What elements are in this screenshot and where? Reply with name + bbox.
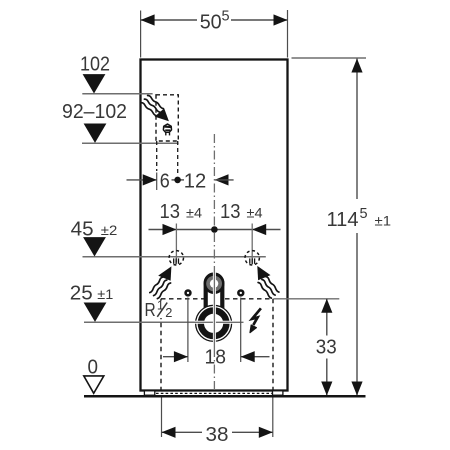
- svg-text:R: R: [145, 299, 156, 320]
- rough-in dashed box: [161, 299, 273, 390]
- dimension 33 vertical: [321, 299, 332, 396]
- svg-text:33: 33: [316, 336, 337, 359]
- fixing screw left: [184, 289, 191, 296]
- svg-text:5: 5: [222, 9, 230, 25]
- svg-text:±2: ±2: [101, 222, 118, 238]
- dashed drop line water pipe axis: [177, 141, 179, 176]
- svg-text:50: 50: [200, 10, 222, 33]
- dimension 13 +-4 / 13 +-4: [149, 224, 281, 235]
- module bottom feet: left foot: [144, 391, 154, 395]
- fixing screw right: [237, 289, 244, 296]
- svg-text:18: 18: [205, 346, 227, 369]
- dimension 6/12: [127, 174, 234, 185]
- dashed line between feet: [156, 392, 272, 394]
- level line 45: [83, 256, 266, 258]
- dimension 38: [162, 427, 273, 438]
- label R 1/2: [143, 298, 174, 320]
- capsule gray ring: [204, 273, 225, 294]
- top dashed box (water supply zone): [156, 95, 178, 141]
- label 45 +-2: [71, 218, 118, 241]
- triangle marker 25: [84, 303, 107, 322]
- extension line screw right down: [240, 298, 242, 363]
- dashed circle right water connection: [245, 251, 259, 265]
- extension line 38 right: [272, 398, 274, 438]
- svg-text:±4: ±4: [186, 205, 202, 221]
- level line 92-102: [82, 142, 179, 144]
- svg-text:114: 114: [327, 208, 359, 231]
- flush valve capsule: [206, 275, 223, 316]
- extension line to right water connection: [251, 224, 253, 263]
- dimension 114.5 vertical: [351, 59, 362, 396]
- label 13 +-4 right: [220, 200, 263, 223]
- floor line: [84, 395, 366, 398]
- extension line 33 top: [274, 298, 340, 300]
- svg-text:±1: ±1: [375, 213, 392, 229]
- svg-text:13: 13: [160, 200, 181, 223]
- svg-text:92–102: 92–102: [62, 100, 127, 123]
- svg-text:5: 5: [360, 206, 368, 222]
- label 25 +-1: [70, 282, 114, 305]
- label 13 +-4 left: [160, 200, 203, 223]
- svg-text:±1: ±1: [97, 286, 113, 302]
- module outline: [141, 60, 288, 391]
- triangle marker 45: [83, 237, 106, 256]
- open triangle marker 0: [84, 376, 104, 393]
- label 114(5) +-1: [327, 206, 392, 231]
- svg-text:1: 1: [157, 298, 164, 313]
- svg-text:0: 0: [88, 356, 99, 379]
- extension line to left water connection: [175, 224, 177, 263]
- dashed drop line from box left edge: [156, 141, 158, 171]
- center line (vertical dash-dot): [213, 134, 215, 390]
- svg-text:25: 25: [70, 282, 93, 305]
- label 50(5): [200, 9, 230, 34]
- water symbol top (arrow down-right): [140, 93, 169, 121]
- svg-text:6: 6: [160, 170, 170, 193]
- triangle marker 102: [83, 74, 106, 93]
- lightning bolt: [250, 308, 261, 332]
- level line 102: [82, 93, 152, 95]
- water symbol left (arrow up-right): [150, 266, 172, 298]
- level line 25: [84, 321, 244, 323]
- svg-text:38: 38: [206, 423, 229, 446]
- svg-text:2: 2: [165, 305, 172, 320]
- svg-text:45: 45: [71, 218, 94, 241]
- plug icon: [163, 124, 171, 135]
- dashed circle left water connection: [169, 251, 183, 265]
- right foot: [273, 391, 283, 395]
- flush pipe circle: [195, 267, 243, 348]
- wire: extension line right of 50.5 dim: [287, 10, 289, 58]
- extension line 114.5 top: [292, 57, 367, 59]
- triangle marker 92-102: [84, 123, 107, 142]
- svg-text:13: 13: [220, 200, 241, 223]
- water symbol right (arrow up-left): [257, 266, 279, 298]
- extension stub at x=156.7: [156, 173, 158, 191]
- crosshair white casing horizontal: [195, 321, 244, 324]
- svg-text:12: 12: [184, 170, 207, 193]
- extension line 38 left: [161, 398, 163, 438]
- extension line screw left down: [187, 298, 189, 363]
- crosshair white casing vertical: [213, 268, 216, 348]
- dimension 50.5 top line: [141, 14, 288, 25]
- svg-text:102: 102: [80, 53, 110, 76]
- wire: extension line left of 50.5 dim: [140, 11, 142, 58]
- dimension 18: [163, 351, 270, 362]
- svg-text:±4: ±4: [247, 205, 263, 221]
